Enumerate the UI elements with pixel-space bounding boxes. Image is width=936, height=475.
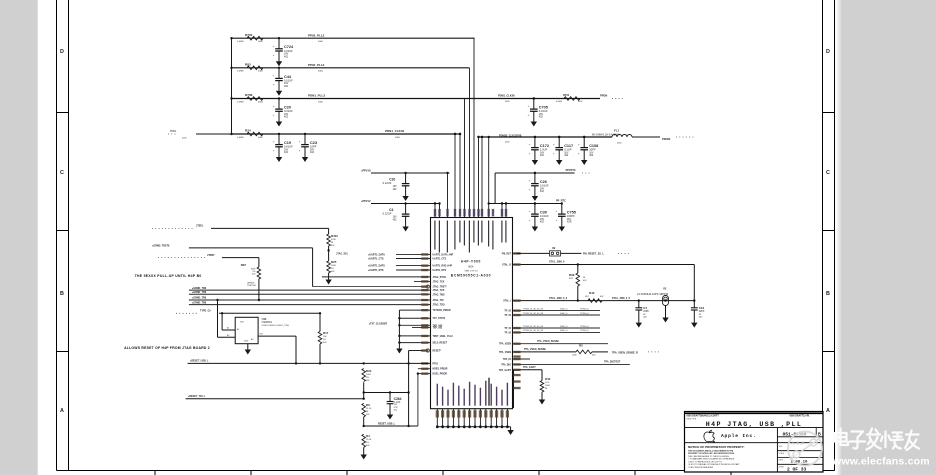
- svg-text:C23: C23: [310, 141, 317, 145]
- svg-text:JTAG_SEL: JTAG_SEL: [336, 252, 349, 255]
- svg-text:PDN32_CLK32768: PDN32_CLK32768: [499, 134, 522, 138]
- svg-text:D: D: [60, 49, 64, 55]
- svg-text:C705: C705: [539, 106, 548, 110]
- svg-text:0402: 0402: [258, 101, 264, 103]
- svg-text:10K: 10K: [323, 336, 327, 338]
- svg-text:R2: R2: [579, 343, 583, 347]
- svg-text:H4P JTAG, USB ,PLL: H4P JTAG, USB ,PLL: [706, 421, 802, 428]
- svg-text:0000 DRAFTS.APL: 0000 DRAFTS.APL: [790, 415, 811, 418]
- svg-text:R708: R708: [245, 93, 253, 97]
- svg-text:RESET_USB_L: RESET_USB_L: [378, 422, 396, 425]
- svg-text:VER 1 OF 13: VER 1 OF 13: [464, 270, 478, 272]
- svg-text:HRES_PRIOR: HRES_PRIOR: [433, 369, 448, 371]
- svg-text:«UART1_DATA: «UART1_DATA: [368, 253, 385, 256]
- svg-text:0.0HM: 0.0HM: [556, 101, 562, 103]
- svg-text:«UART1_CTS: «UART1_CTS: [368, 257, 384, 260]
- svg-text:TPA_IO: TPA_IO: [503, 358, 511, 361]
- svg-text:TPA_GADT: TPA_GADT: [499, 369, 512, 372]
- svg-text:TP_IO: TP_IO: [504, 315, 511, 317]
- svg-text:RESET*: RESET*: [433, 351, 442, 353]
- svg-text:0.22UF: 0.22UF: [383, 181, 392, 185]
- svg-text:XTAL_26M_0_0: XTAL_26M_0_0: [549, 297, 568, 300]
- svg-text:TPA_VSEN_SENSE: TPA_VSEN_SENSE: [524, 348, 546, 351]
- svg-text:UART1_CTS: UART1_CTS: [433, 258, 447, 261]
- svg-text:R39: R39: [569, 273, 575, 277]
- svg-text:402: 402: [284, 116, 289, 119]
- svg-text:0000_0: 0000_0: [560, 313, 568, 315]
- svg-text:«PP1V2: «PP1V2: [361, 199, 371, 203]
- svg-text:A: A: [826, 408, 830, 414]
- svg-text:0000_0: 0000_0: [560, 308, 568, 310]
- svg-text:C20: C20: [284, 106, 291, 110]
- svg-text:«GRND_TR8: «GRND_TR8: [192, 291, 207, 294]
- svg-text:22PF: 22PF: [643, 310, 649, 313]
- svg-text:5%: 5%: [366, 442, 369, 444]
- svg-text:C172: C172: [540, 144, 549, 148]
- svg-text:TP_IO: TP_IO: [504, 328, 511, 330]
- svg-text:TPA_VSEN: TPA_VSEN: [499, 343, 511, 346]
- svg-text:402: 402: [284, 55, 289, 58]
- svg-text:PP02_PLL2: PP02_PLL2: [308, 33, 325, 37]
- svg-text:PDN1_CLK32: PDN1_CLK32: [385, 129, 405, 133]
- svg-text:JTAG_TDI: JTAG_TDI: [433, 299, 444, 302]
- svg-text:A: A: [60, 408, 64, 414]
- svg-text:«UART1_RTS: «UART1_RTS: [368, 269, 384, 272]
- svg-text:TP402_B_40_40_40: TP402_B_40_40_40: [523, 313, 544, 315]
- svg-text:0.0HM: 0.0HM: [237, 41, 244, 43]
- svg-text:JTRST: JTRST: [207, 254, 215, 257]
- svg-text:THIS DOCUMENT AND ALL DATA HER: THIS DOCUMENT AND ALL DATA HEREIN IS THE: [688, 449, 734, 452]
- svg-text:H16M061: H16M061: [262, 321, 273, 324]
- svg-text:«GRND_TR8: «GRND_TR8: [192, 301, 207, 304]
- svg-text:402: 402: [540, 190, 545, 193]
- svg-text:TP400_0: TP400_0: [580, 326, 590, 328]
- svg-text:www.elecfans.com: www.elecfans.com: [832, 456, 930, 468]
- svg-text:51.1K: 51.1K: [366, 408, 372, 410]
- svg-text:ALLOWS RESET OF H4P FROM JTAG: ALLOWS RESET OF H4P FROM JTAG BOARD 2: [124, 346, 210, 350]
- svg-text:TRST000: TRST000: [247, 285, 257, 287]
- svg-text:0000: 0000: [395, 137, 401, 139]
- svg-text:402: 402: [310, 151, 315, 154]
- svg-text:JTAG_TMS: JTAG_TMS: [433, 293, 446, 296]
- svg-text:PDN1_CLK26: PDN1_CLK26: [498, 94, 515, 98]
- svg-text:C724: C724: [284, 45, 294, 49]
- svg-text:100K: 100K: [572, 355, 577, 357]
- svg-text:PDN32: PDN32: [662, 137, 671, 141]
- svg-text:«GRND_TRST8: «GRND_TRST8: [152, 244, 170, 247]
- svg-text:0000 DRAFTSMAN.ELA.DRFT: 0000 DRAFTSMAN.ELA.DRFT: [687, 415, 720, 418]
- svg-text:PROPERTY OF APPLE INC. ANY REP: PROPERTY OF APPLE INC. ANY REPRODUCTION: [688, 452, 735, 455]
- svg-text:JTSEL: JTSEL: [196, 225, 204, 228]
- svg-text:TXT_STAT0: TXT_STAT0: [433, 317, 446, 320]
- svg-text:R42: R42: [545, 377, 551, 381]
- svg-text:PTIO: PTIO: [433, 363, 439, 365]
- svg-text:«UART1_DATA: «UART1_DATA: [368, 265, 385, 268]
- svg-text:XTAL_26M_0: XTAL_26M_0: [549, 261, 565, 264]
- svg-text:«GRND_TR8: «GRND_TR8: [192, 297, 207, 300]
- svg-text:R701: R701: [563, 93, 570, 97]
- svg-text:A1: A1: [227, 327, 229, 330]
- svg-text:C44: C44: [284, 75, 292, 79]
- svg-text:JTAG_RTCK: JTAG_RTCK: [433, 276, 447, 279]
- svg-text:BGA: BGA: [468, 266, 473, 269]
- svg-text:TP403_B_40_40_40: TP403_B_40_40_40: [523, 326, 544, 328]
- svg-text:402: 402: [284, 151, 289, 154]
- svg-text:A.0.0: A.0.0: [792, 442, 805, 446]
- svg-text:R17: R17: [323, 331, 329, 335]
- svg-text:C10: C10: [389, 178, 395, 182]
- svg-text:TPA_DIG: TPA_DIG: [501, 363, 511, 366]
- svg-text:GND: GND: [244, 341, 249, 343]
- svg-text:JTAG_TDO: JTAG_TDO: [433, 304, 445, 307]
- svg-text:C: C: [60, 170, 64, 176]
- svg-text:470K: 470K: [331, 239, 336, 241]
- svg-text:FM_RESET_2G_L: FM_RESET_2G_L: [583, 253, 604, 256]
- svg-text:II NOT TO REPRODUCE OR COPY IT: II NOT TO REPRODUCE OR COPY IT: [688, 461, 723, 463]
- svg-text:402: 402: [539, 116, 544, 119]
- svg-text:TPA_VSEN_SENSE_R: TPA_VSEN_SENSE_R: [612, 352, 638, 355]
- svg-text:IV ALL RIGHTS RESERVED: IV ALL RIGHTS RESERVED: [688, 466, 714, 469]
- svg-text:GSM07GSM07LGSM07_JTAG: GSM07GSM07LGSM07_JTAG: [262, 324, 290, 327]
- svg-text:402: 402: [540, 221, 545, 224]
- svg-text:VDD: VDD: [240, 322, 245, 324]
- svg-text:«TXT_CLASSBT: «TXT_CLASSBT: [369, 322, 388, 325]
- svg-text:0.0HM: 0.0HM: [237, 137, 244, 139]
- svg-text:PP_RTC: PP_RTC: [556, 200, 566, 203]
- svg-text:XTAL_O: XTAL_O: [502, 264, 511, 267]
- svg-text:0402: 0402: [258, 137, 264, 139]
- svg-text:B: B: [60, 291, 64, 297]
- svg-text:5%: 5%: [331, 268, 334, 270]
- svg-text:JTAG_TCK: JTAG_TCK: [433, 280, 445, 283]
- svg-text:D: D: [826, 49, 830, 55]
- svg-text:R9: R9: [366, 403, 370, 407]
- svg-text:C755: C755: [567, 211, 576, 215]
- svg-text:C108: C108: [589, 144, 598, 148]
- svg-text:R700: R700: [245, 33, 253, 37]
- svg-text:«GRND_TR8: «GRND_TR8: [192, 287, 207, 290]
- svg-text:PDN1: PDN1: [170, 130, 177, 133]
- svg-text:V2: V2: [663, 286, 667, 290]
- svg-text:TP400_0: TP400_0: [580, 308, 590, 310]
- svg-text:PDN1_PLL3: PDN1_PLL3: [308, 94, 325, 98]
- svg-text:0000: 0000: [318, 71, 324, 73]
- svg-text:5%: 5%: [366, 377, 369, 379]
- svg-text:C: C: [826, 170, 830, 176]
- svg-text:5%: 5%: [323, 339, 326, 341]
- svg-text:TP_IO: TP_IO: [504, 332, 511, 334]
- svg-text:TRST_HSEL_PLL0: TRST_HSEL_PLL0: [433, 336, 454, 338]
- svg-text:XTAL_26M_0_0: XTAL_26M_0_0: [612, 297, 631, 300]
- svg-text:UART1_RXD_H4P: UART1_RXD_H4P: [433, 265, 453, 268]
- svg-text:B: B: [826, 291, 830, 297]
- svg-text:TP404_B_40_40_40: TP404_B_40_40_40: [523, 330, 544, 332]
- svg-text:402: 402: [540, 154, 545, 157]
- svg-text:DWG TYPE: DWG TYPE: [687, 418, 697, 420]
- svg-text:0.0HM: 0.0HM: [237, 71, 244, 73]
- svg-text:TYPE_C0: TYPE_C0: [200, 310, 211, 313]
- svg-text:0000_0: 0000_0: [560, 326, 568, 328]
- svg-text:0000: 0000: [318, 101, 324, 103]
- svg-text:R25: R25: [331, 260, 337, 264]
- svg-text:PPVRTC: PPVRTC: [566, 169, 576, 172]
- svg-text:C4: C4: [389, 208, 393, 212]
- svg-text:B: B: [818, 432, 821, 437]
- svg-text:0.22UF: 0.22UF: [383, 212, 392, 216]
- svg-text:I TO MAINTAIN THIS DOCUMENT IN: I TO MAINTAIN THIS DOCUMENT IN CONFIDENC…: [688, 458, 735, 461]
- svg-text:TP401_B_40_40_40: TP401_B_40_40_40: [523, 308, 544, 310]
- svg-text:0.0HM: 0.0HM: [237, 101, 244, 103]
- svg-text:402: 402: [589, 154, 594, 157]
- svg-text:R401: R401: [331, 234, 338, 238]
- svg-text:FM_RST: FM_RST: [502, 253, 512, 255]
- svg-text:A1: A1: [237, 328, 239, 331]
- svg-text:0402: 0402: [258, 41, 264, 43]
- svg-text:R40: R40: [589, 291, 595, 295]
- svg-text:SEL0_RESET: SEL0_RESET: [433, 343, 448, 345]
- svg-text:A2: A2: [251, 338, 253, 341]
- svg-text:2 OF 33: 2 OF 33: [787, 467, 807, 473]
- svg-text:0402: 0402: [258, 71, 264, 73]
- svg-text:0000: 0000: [318, 41, 324, 43]
- svg-text:«RESET_TDI_L: «RESET_TDI_L: [188, 395, 206, 398]
- svg-text:R4: R4: [366, 434, 370, 438]
- svg-text:III NOT TO REVEAL OR PUBLISH I: III NOT TO REVEAL OR PUBLISH IT IN WHOLE…: [688, 463, 740, 466]
- svg-text:TXT0000_PRIOR: TXT0000_PRIOR: [433, 310, 451, 312]
- svg-text:THE CHECKER AGREE TO THE FOLLO: THE CHECKER AGREE TO THE FOLLOWING:: [688, 455, 730, 458]
- svg-text:C19: C19: [284, 141, 291, 145]
- svg-text:SHEET: SHEET: [779, 467, 785, 469]
- svg-text:JTAG_TCK: JTAG_TCK: [433, 289, 445, 292]
- svg-text:80-OHM-0.2A-0.4-OHM: 80-OHM-0.2A-0.4-OHM: [592, 132, 619, 136]
- svg-text:XTAL_I: XTAL_I: [503, 300, 511, 303]
- svg-text:TPA_DIGTEST: TPA_DIGTEST: [604, 361, 621, 364]
- svg-text:TPA_VSEN_SENSE: TPA_VSEN_SENSE: [537, 340, 559, 343]
- svg-text:JTAG_TRST*: JTAG_TRST*: [433, 286, 447, 289]
- svg-text:SCALE: SCALE: [779, 452, 785, 455]
- svg-text:0000_0: 0000_0: [560, 330, 568, 332]
- svg-text:R24: R24: [366, 369, 372, 373]
- svg-text:402: 402: [284, 85, 289, 88]
- svg-text:THE 5EXXX PULL-UP UNTIL H4P B0: THE 5EXXX PULL-UP UNTIL H4P B0: [135, 274, 202, 278]
- svg-text:PPDN: PPDN: [600, 94, 607, 98]
- svg-text:NOTICE OF PROPRIETARY PROPERTY: NOTICE OF PROPRIETARY PROPERTY:: [688, 445, 745, 449]
- svg-text:UART1_RTS: UART1_RTS: [433, 269, 447, 272]
- svg-text:100K: 100K: [545, 385, 550, 387]
- svg-text:Apple Inc.: Apple Inc.: [721, 433, 757, 439]
- svg-text:X9: X9: [552, 246, 556, 250]
- svg-text:«PP1V8: «PP1V8: [361, 168, 371, 172]
- svg-text:22PF: 22PF: [699, 310, 705, 313]
- svg-text:C117: C117: [564, 144, 573, 148]
- svg-text:402: 402: [564, 154, 569, 157]
- svg-text:TP400_0: TP400_0: [580, 330, 590, 332]
- svg-text:100K: 100K: [331, 265, 336, 267]
- svg-text:«RESET_USB_L: «RESET_USB_L: [190, 359, 209, 362]
- svg-text:R24: R24: [245, 129, 251, 133]
- svg-text:R97: R97: [241, 263, 247, 267]
- svg-text:UART1_DATA_H4P: UART1_DATA_H4P: [433, 253, 454, 256]
- svg-text:BCM59055C1-A030: BCM59055C1-A030: [451, 274, 491, 278]
- svg-text:HSE1_PRIOR: HSE1_PRIOR: [433, 374, 448, 376]
- svg-text:TP_IO: TP_IO: [504, 311, 511, 313]
- svg-text:TP400_0: TP400_0: [580, 313, 590, 315]
- svg-text:11.0K: 11.0K: [366, 439, 372, 441]
- svg-text:TPA_VSEN: TPA_VSEN: [499, 351, 511, 354]
- svg-text:C26: C26: [540, 180, 547, 184]
- svg-text:TXP_X01: TXP_X01: [433, 327, 444, 329]
- svg-text:PP02_PLL2: PP02_PLL2: [308, 63, 325, 67]
- svg-text:A2: A2: [227, 334, 229, 337]
- svg-text:R83: R83: [245, 62, 251, 66]
- svg-text:FL1: FL1: [614, 128, 619, 132]
- svg-text:H4P-Y000: H4P-Y000: [461, 260, 481, 264]
- svg-text:X5R: X5R: [567, 221, 572, 224]
- svg-text:TPA_GADT: TPA_GADT: [523, 366, 536, 369]
- svg-text:C30: C30: [540, 211, 547, 215]
